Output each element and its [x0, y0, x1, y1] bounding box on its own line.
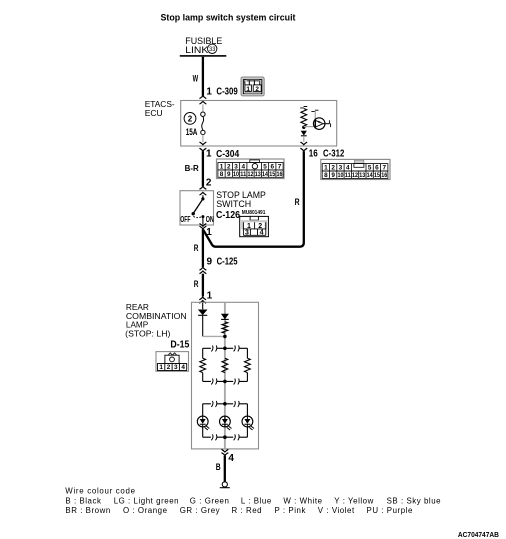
svg-text:LINK: LINK [185, 45, 209, 56]
svg-text:AC704747AB: AC704747AB [458, 530, 499, 539]
node dot (resistor network bottom) [223, 380, 227, 384]
svg-text:G : Green: G : Green [190, 496, 230, 505]
ETACS internal resistor top stub [300, 107, 307, 108]
svg-text:11: 11 [345, 172, 351, 179]
svg-text:13: 13 [359, 172, 365, 179]
circled 33 [208, 44, 217, 53]
svg-text:C-312: C-312 [323, 148, 345, 159]
svg-text:W : White: W : White [283, 496, 322, 505]
svg-text:OFF: OFF [180, 215, 190, 224]
svg-text:14: 14 [262, 171, 268, 178]
connector icon C-126 [240, 216, 269, 236]
gray link to center node [203, 335, 225, 337]
svg-text:1: 1 [159, 364, 163, 371]
svg-text:3: 3 [174, 364, 178, 371]
svg-text:ECU: ECU [145, 108, 163, 118]
svg-text:D-15: D-15 [170, 340, 189, 351]
fuse symbol [201, 104, 205, 141]
svg-text:P : Pink: P : Pink [275, 506, 306, 515]
svg-text:12: 12 [352, 172, 358, 179]
svg-text:1: 1 [206, 86, 212, 97]
chevrons at ETACS top crossing [200, 96, 207, 104]
connector D-15 pin1 chevrons [199, 297, 206, 303]
node dot (LED network bottom) [223, 435, 227, 439]
svg-text:Stop lamp switch system circui: Stop lamp switch system circuit [161, 12, 297, 23]
svg-text:C-125: C-125 [217, 257, 238, 268]
svg-text:9: 9 [207, 257, 213, 268]
svg-text:W: W [193, 73, 199, 83]
svg-text:Wire colour code: Wire colour code [65, 487, 135, 496]
resistor R-mid [222, 358, 228, 372]
LED right [242, 416, 254, 430]
svg-text:1: 1 [324, 165, 328, 172]
svg-text:R : Red: R : Red [232, 506, 263, 515]
chevrons at switch top crossing [200, 187, 207, 195]
svg-text:GR : Grey: GR : Grey [180, 506, 220, 515]
wire R (switch to C-125) [202, 229, 204, 267]
transistor Q (output driver) [311, 110, 330, 129]
lamp series resistor [222, 322, 228, 333]
lamp left diode branch [198, 303, 208, 337]
wire R right branch (switch to ETACS pin16) [203, 151, 303, 247]
rear combination lamp box [192, 302, 259, 449]
svg-text:2: 2 [331, 165, 335, 172]
svg-text:ON: ON [206, 215, 214, 224]
node dot (LED network top) [223, 402, 227, 406]
ETACS-ECU label [145, 99, 175, 118]
svg-text:2: 2 [227, 164, 231, 171]
LED network rails [203, 404, 248, 437]
svg-text:6: 6 [271, 164, 275, 171]
svg-text:1: 1 [246, 86, 250, 93]
wire B (lamp to ground) [224, 456, 226, 482]
svg-text:LAMP: LAMP [126, 321, 149, 330]
svg-text:O : Orange: O : Orange [123, 506, 168, 515]
ground [220, 482, 230, 488]
svg-text:4: 4 [346, 165, 350, 172]
chevrons at switch bottom crossing [200, 224, 207, 229]
svg-text:11: 11 [240, 171, 246, 178]
lamp right diode [221, 314, 229, 320]
svg-text:R: R [194, 279, 199, 289]
stop lamp switch box [180, 191, 214, 225]
svg-text:7: 7 [278, 164, 282, 171]
chevrons at ETACS bottom pin 1 [200, 142, 207, 151]
wire colour code line 1 [65, 496, 441, 505]
svg-text:5: 5 [368, 165, 372, 172]
LED left [197, 416, 209, 430]
svg-text:R: R [295, 197, 300, 207]
svg-text:3: 3 [245, 229, 249, 236]
svg-text:12: 12 [248, 171, 254, 178]
connector C-125 chevrons [200, 268, 207, 274]
svg-text:C-304: C-304 [216, 149, 239, 160]
svg-text:5: 5 [263, 164, 267, 171]
diode (ETACS internal) [301, 131, 307, 142]
resistor (ETACS internal) [301, 109, 307, 127]
fuse 2 circled label [184, 113, 196, 125]
svg-text:B: B [216, 462, 221, 472]
svg-text:2: 2 [167, 364, 171, 371]
fusible link bus bar [180, 55, 227, 57]
rear combination lamp label [125, 303, 187, 339]
svg-text:R: R [194, 243, 199, 253]
svg-text:16: 16 [309, 148, 318, 159]
svg-text:9: 9 [227, 171, 231, 178]
svg-text:15: 15 [374, 172, 380, 179]
svg-text:6: 6 [375, 165, 379, 172]
connector table C-304 [217, 159, 285, 179]
gray link to transistor base [304, 126, 314, 128]
svg-text:B-R: B-R [185, 163, 200, 173]
svg-text:33: 33 [209, 46, 216, 53]
resistor network rails [203, 348, 248, 381]
junction dot [223, 335, 227, 339]
svg-text:4: 4 [181, 364, 185, 371]
svg-text:(STOP: LH): (STOP: LH) [125, 330, 170, 339]
svg-text:4: 4 [228, 453, 234, 464]
wire W from fusible link to ETACS [202, 57, 204, 96]
svg-text:V : Violet: V : Violet [318, 506, 355, 515]
svg-text:COMBINATION: COMBINATION [126, 312, 187, 321]
svg-text:2: 2 [188, 114, 193, 123]
connector table C-312 [321, 159, 390, 179]
svg-text:4: 4 [242, 164, 246, 171]
connector icon C-309 [241, 77, 264, 96]
svg-text:1: 1 [207, 290, 213, 301]
svg-text:PU : Purple: PU : Purple [367, 506, 413, 515]
svg-text:MU801491: MU801491 [242, 210, 266, 216]
svg-text:8: 8 [324, 172, 328, 179]
stop lamp switch label [216, 189, 266, 209]
node dot (resistor network top) [223, 347, 227, 351]
switch internals [192, 195, 205, 224]
svg-text:4: 4 [260, 229, 264, 236]
lamp internal gray bus [224, 303, 226, 449]
svg-text:13: 13 [255, 171, 261, 178]
fusible link label [185, 36, 222, 56]
svg-text:16: 16 [381, 172, 387, 179]
svg-text:REAR: REAR [126, 303, 149, 312]
wire colour code line 2 [65, 506, 413, 515]
svg-text:3: 3 [339, 165, 343, 172]
svg-text:15A: 15A [186, 127, 198, 137]
svg-text:C-126: C-126 [216, 210, 240, 221]
svg-text:L : Blue: L : Blue [241, 496, 272, 505]
svg-text:10: 10 [233, 171, 239, 178]
joint marks (LED network) [211, 401, 239, 440]
LED mid [220, 416, 232, 430]
ETACS-ECU box [181, 101, 337, 147]
svg-text:14: 14 [367, 172, 373, 179]
svg-text:2: 2 [255, 86, 259, 93]
svg-text:8: 8 [220, 171, 224, 178]
svg-text:SB : Sky blue: SB : Sky blue [387, 496, 442, 505]
svg-text:1: 1 [206, 149, 212, 160]
junction dot (base node) [302, 126, 305, 129]
wire B-R (ETACS pin1 to switch) [202, 151, 204, 186]
svg-text:10: 10 [337, 172, 343, 179]
svg-text:3: 3 [234, 164, 238, 171]
svg-text:15: 15 [269, 171, 275, 178]
resistor R-left [200, 358, 206, 372]
svg-text:LG : Light green: LG : Light green [114, 496, 179, 505]
svg-text:B : Black: B : Black [65, 496, 101, 505]
svg-text:9: 9 [331, 172, 335, 179]
resistor R-right [245, 358, 251, 372]
joint marks (resistor network) [211, 345, 239, 384]
svg-text:Y : Yellow: Y : Yellow [334, 496, 374, 505]
connector D-15 pin4 chevrons [222, 449, 229, 455]
svg-text:C-309: C-309 [216, 87, 238, 98]
svg-text:7: 7 [382, 165, 386, 172]
svg-text:1: 1 [220, 164, 224, 171]
svg-text:BR : Brown: BR : Brown [65, 506, 110, 515]
chevrons at ETACS bottom pin 16 [300, 142, 307, 151]
connector icon D-15 [156, 352, 189, 372]
svg-text:16: 16 [277, 171, 283, 178]
wire R (C-125 to lamp) [202, 274, 204, 297]
svg-text:2: 2 [206, 177, 212, 188]
svg-text:SWITCH: SWITCH [216, 198, 251, 209]
